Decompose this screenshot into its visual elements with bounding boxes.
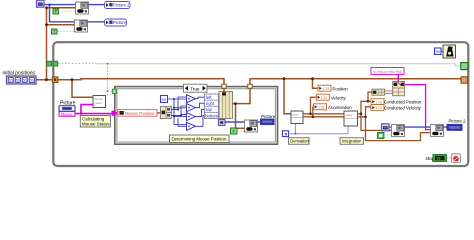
indicator Velocity [316, 94, 346, 100]
wire: blue node2 to Picture indicator [88, 21, 105, 23]
local variable Picture (selected) [261, 114, 276, 125]
svg-text:Derivation: Derivation [290, 139, 309, 144]
wire: blue between right draw nodes [405, 126, 431, 128]
indicator Conducted Position [371, 99, 422, 105]
wire: brown branch down to draw node rect input [236, 104, 245, 129]
indicator Acceleration [314, 104, 353, 110]
case top tunnels [222, 84, 226, 88]
wire: brown stub to draw node 1 [47, 7, 76, 9]
wires: thin blue comparator network [168, 97, 187, 126]
svg-text:Mouse Status: Mouse Status [82, 122, 110, 127]
boolean constant T (in case) [231, 128, 238, 134]
svg-text:Conducted Position: Conducted Position [384, 100, 422, 105]
wire: magenta string down to format node [397, 75, 399, 82]
label Integration [340, 138, 364, 144]
wire: branch up to unbundle [368, 92, 372, 101]
wire: integration out B to Conducted Velocity and down [358, 107, 372, 117]
wire: brown to VI input [72, 80, 93, 98]
tunnel magenta arrow on case border [112, 111, 118, 116]
label Calculating Mouse Status [80, 116, 110, 128]
wire: acceleration branch up [312, 107, 315, 117]
comparator 3 [187, 113, 196, 121]
case selector terminal [112, 89, 116, 93]
bundle bar [219, 92, 233, 119]
wire: green dashed T to node2 [58, 31, 75, 33]
draw VI node 1 [76, 2, 89, 14]
unbundle node (right) [372, 89, 385, 95]
wire: green dashed F to node1 [59, 10, 76, 12]
boolean constant D (right) [378, 133, 385, 139]
wire: brown into bundle top [223, 88, 225, 92]
VI Integration icon [344, 111, 358, 126]
tunnel orange right [461, 77, 467, 83]
wire: velocity branch up [311, 97, 317, 114]
picture constant (right) [382, 124, 390, 131]
tunnel green left [53, 61, 58, 66]
wire: cluster to unbundle [157, 112, 161, 114]
boolean constant F [53, 9, 59, 14]
indicator Position [318, 85, 348, 91]
wire: magenta mouse to case [75, 113, 112, 115]
draw VI node (right-left) [392, 125, 405, 137]
svg-text:Integration: Integration [342, 139, 362, 144]
boolean constant T [52, 29, 58, 34]
svg-text:bottom: bottom [205, 113, 218, 118]
svg-text:left: left [206, 95, 212, 100]
wire: blue branch down to draw node 2 [50, 5, 75, 22]
wire: integration out A to Conducted Position and down [358, 101, 372, 114]
wire: brown junction down to Derivation [284, 79, 291, 114]
wire: brown stub to draw node 2 [47, 24, 75, 26]
terminal Picture 2 (selected) [447, 119, 466, 131]
wire: lavender i wire [289, 126, 349, 134]
svg-text:50: 50 [16, 78, 20, 82]
wires: comparator outputs to bundle rows [196, 97, 205, 126]
svg-text:Mouse: Mouse [61, 112, 72, 116]
wire: brown rect cluster vertical [46, 8, 48, 80]
wire: initial positions to left tunnel [36, 79, 54, 81]
svg-text:TF: TF [436, 156, 441, 161]
svg-text:Picture: Picture [261, 114, 276, 119]
terminal Mouse refnum control [59, 112, 75, 117]
svg-text:50: 50 [30, 78, 34, 82]
indicator Conducted Velocity [371, 105, 422, 111]
svg-text:Acceleration: Acceleration [328, 105, 352, 110]
tunnel orange left [52, 77, 58, 83]
svg-text:50: 50 [436, 49, 441, 54]
wire: green dashed to left draw node [384, 134, 392, 136]
tunnel green right [461, 63, 468, 70]
iteration terminal i [283, 131, 289, 137]
wire: green from VI up to long line [107, 64, 109, 96]
wire: green dashed to draw node [237, 130, 245, 132]
wire: blue picture from P1 to draw node 1 [44, 4, 76, 6]
svg-text:Picture 2: Picture 2 [113, 3, 130, 8]
svg-text:50: 50 [162, 97, 167, 102]
svg-text:T: T [53, 29, 56, 34]
comparator 1 [187, 95, 196, 103]
svg-text:50: 50 [23, 78, 27, 82]
svg-text:Mouse Position: Mouse Position [125, 111, 155, 116]
svg-text:Determining Mouse Position: Determining Mouse Position [172, 137, 227, 142]
svg-text:deriv: deriv [292, 113, 299, 117]
svg-text:Velocity: Velocity [331, 96, 347, 101]
svg-text:50: 50 [9, 78, 13, 82]
wire: blue to left draw node [389, 126, 392, 128]
svg-text:Position: Position [333, 87, 349, 92]
while loop [53, 42, 468, 166]
draw VI node 2 [75, 20, 88, 32]
svg-text:F: F [55, 9, 58, 14]
terminal Mouse Position (in case) [118, 110, 157, 117]
draw VI node (in case) [245, 120, 258, 132]
comparator 4 [187, 122, 196, 130]
svg-text:n: n [285, 132, 288, 137]
svg-text:status: status [94, 101, 102, 105]
wire: derivation outputs to integration [303, 113, 344, 115]
wire: long green boolean across loop [58, 63, 96, 65]
wire: brown main inside loop (left segment) [57, 79, 224, 86]
svg-text:Picture 2: Picture 2 [449, 119, 467, 124]
svg-text:x=%d,y=%d %d: x=%d,y=%d %d [373, 69, 401, 74]
unbundle node [161, 107, 172, 119]
wire: blue to Picture local [258, 121, 261, 123]
wire: blue node1 to Picture 2 indicator [89, 4, 105, 6]
terminal Picture control (left in loop) [59, 101, 76, 112]
wire: blue to Picture 2 terminal [444, 126, 448, 128]
svg-text:True: True [190, 87, 200, 92]
case structure [115, 87, 278, 145]
format into string node [393, 81, 405, 95]
numeric constant 50 (wait) [435, 48, 442, 55]
boolean constant near left border [47, 61, 52, 66]
numeric constant 50 (in case) [161, 96, 168, 103]
loop condition terminal [452, 154, 461, 163]
bundle by name left right top bottom [205, 94, 219, 118]
svg-text:Picture: Picture [113, 20, 126, 25]
wire: brown bundle output to case out tunnel [233, 88, 251, 104]
label Derivation [289, 138, 310, 144]
initial positions cluster constant [3, 71, 37, 85]
label Determining Mouse Position [170, 135, 230, 143]
wire: magenta format out to draw node [404, 85, 430, 130]
draw VI node (right-right) [431, 124, 444, 136]
indicator Picture (top) [105, 19, 127, 26]
case selector "True" [184, 84, 208, 92]
wire: brown main right segment from case out tunnel [250, 79, 462, 86]
wire: blue picture to in-case draw node [225, 121, 245, 123]
wait until next ms multiple [443, 45, 456, 58]
wire: green dashed stop to condition [447, 157, 452, 159]
wire: 50 to wait [441, 50, 443, 52]
wire: brown junction down to Position indicator [313, 79, 319, 89]
svg-text:integr: integr [345, 113, 352, 117]
indicator Picture 2 (top) [105, 2, 131, 9]
VI Calculating Mouse Status icon [93, 96, 106, 108]
svg-text:Conducted Velocity: Conducted Velocity [384, 106, 422, 111]
svg-text:right: right [206, 101, 215, 106]
wires: unbundle to format node [385, 90, 393, 92]
string constant formula box [371, 68, 404, 75]
svg-text:T: T [232, 129, 235, 134]
wire: green to case selector terminal [108, 90, 112, 92]
svg-text:top: top [206, 107, 212, 112]
picture constant P1 (top-left) [37, 0, 45, 7]
VI Derivation icon [291, 111, 303, 124]
comparator 2 [187, 104, 196, 112]
wire: magenta branch up to VI [81, 105, 93, 114]
picture constant (in case) [219, 120, 226, 126]
